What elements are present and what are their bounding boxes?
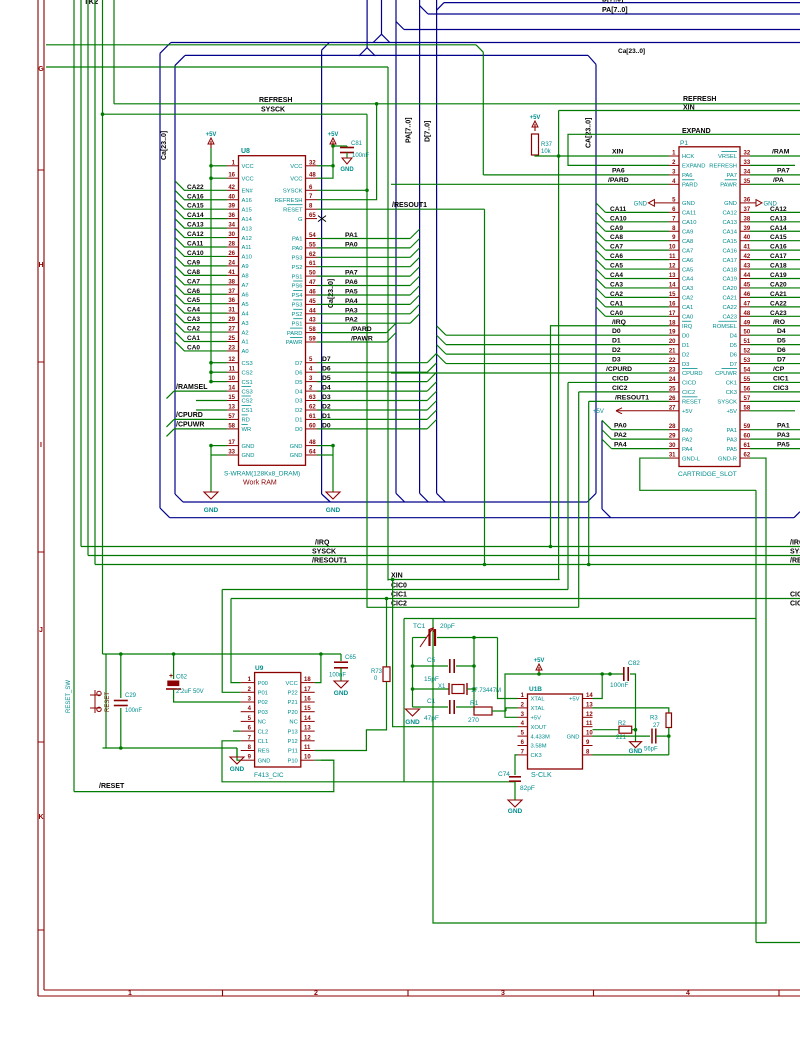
svg-text:S-WRAM(128Kx8_DRAM): S-WRAM(128Kx8_DRAM) [224, 471, 300, 478]
svg-text:34: 34 [744, 169, 751, 175]
resistor R37 10k [532, 134, 539, 155]
svg-text:CA8: CA8 [682, 239, 693, 245]
svg-text:PA1: PA1 [777, 423, 790, 430]
P1 pin 50 D4 [740, 334, 750, 336]
svg-text:CA12: CA12 [722, 211, 737, 217]
wire CA7 bus entry cart [596, 241, 605, 250]
svg-text:54: 54 [744, 368, 751, 374]
U9 pin 5 NC [241, 720, 255, 722]
svg-text:CK3: CK3 [531, 753, 542, 759]
svg-text:CA2: CA2 [610, 291, 623, 298]
svg-text:VCC: VCC [286, 681, 298, 687]
svg-text:/IRQ: /IRQ [612, 319, 626, 326]
ground symbol crystal [406, 709, 420, 716]
svg-text:CA13: CA13 [722, 220, 737, 226]
ground symbol U8 right [326, 492, 340, 499]
P1 pin 59 PA1 [740, 429, 750, 431]
wire TC1 left rail [412, 638, 414, 708]
P1 pin 47 CA22 [740, 306, 750, 308]
wire pin11 to R2 [593, 729, 620, 731]
wire REFRESH vertical from top [113, 0, 115, 104]
P1 pin 39 CA14 [740, 230, 750, 232]
wire /ROMSEL right [750, 325, 800, 327]
resistor R73 [386, 599, 388, 667]
svg-text:27: 27 [228, 327, 235, 333]
svg-text:GND: GND [326, 507, 341, 514]
wire R1 to XTAL2 [492, 710, 506, 712]
U8 pin 29 CA3 [227, 322, 239, 324]
P1 pin 36 GND right arrow [740, 202, 750, 204]
U8 pin 65 G no-connect [306, 218, 318, 220]
svg-text:+5V: +5V [206, 132, 217, 138]
wire +5V vertical from top [102, 0, 104, 654]
svg-text:16: 16 [669, 301, 676, 307]
svg-text:CIC2: CIC2 [391, 600, 407, 607]
svg-text:D1: D1 [612, 338, 621, 345]
svg-text:PS1: PS1 [292, 274, 303, 280]
svg-text:2.2uF 50V: 2.2uF 50V [176, 689, 204, 695]
svg-text:48: 48 [309, 440, 316, 446]
U9 pin 15 P20 [301, 711, 315, 713]
P1 pin 11 CA6 [669, 259, 679, 261]
svg-text:A3: A3 [242, 321, 249, 327]
U1B pin 11 nc [583, 726, 593, 728]
svg-text:/RESOUT1: /RESOUT1 [392, 202, 427, 209]
svg-text:XTAL: XTAL [531, 697, 546, 703]
svg-text:+5V: +5V [593, 409, 604, 415]
svg-text:GND: GND [405, 719, 420, 726]
svg-text:32: 32 [744, 151, 751, 157]
svg-text:VCC: VCC [290, 176, 302, 182]
capacitor C5 15pF [413, 665, 449, 667]
U8 pin 36 CA14 [227, 218, 239, 220]
wire CA10 bus entry [175, 247, 227, 256]
svg-text:CL2: CL2 [258, 729, 269, 735]
wire CA7 bus entry [175, 275, 227, 284]
svg-text:A16: A16 [242, 198, 252, 204]
P1 pin 15 CA2 [669, 296, 679, 298]
svg-text:100nF: 100nF [329, 673, 346, 679]
svg-text:IRQ: IRQ [682, 324, 693, 330]
svg-text:CIC1: CIC1 [790, 592, 800, 599]
P1 pin 31 GND-L [669, 457, 679, 459]
svg-text:CA14: CA14 [722, 229, 737, 235]
svg-text:+5V: +5V [569, 697, 580, 703]
wire PA0 to PA bus [317, 247, 410, 249]
svg-text:CA23: CA23 [722, 315, 737, 321]
wire CIC1 to P00 [231, 599, 241, 683]
svg-text:/RAM: /RAM [772, 149, 790, 156]
svg-text:D2: D2 [682, 352, 689, 358]
wire /RESOUT1 to cart [589, 400, 669, 402]
U8 pin 39 CA15 [227, 208, 239, 210]
U8 pin 63 D3 [306, 400, 318, 402]
svg-text:CA3: CA3 [187, 316, 200, 323]
svg-text:CA12: CA12 [187, 231, 204, 238]
wire CA12 bus entry [175, 228, 227, 237]
svg-text:Ca[23..0]: Ca[23..0] [161, 131, 168, 160]
svg-text:D7: D7 [295, 361, 302, 367]
svg-text:PA0: PA0 [292, 246, 303, 252]
svg-text:62: 62 [744, 453, 751, 459]
+5V power symbol clock [538, 667, 540, 674]
svg-text:GND: GND [204, 507, 219, 514]
wire D3 to D bus [317, 400, 427, 402]
wire CA9 bus entry [175, 257, 227, 266]
svg-text:39: 39 [744, 226, 751, 232]
svg-text:57: 57 [228, 414, 235, 420]
P1 pin 48 CA23 [740, 315, 750, 317]
wire PS1 to PA bus [317, 275, 410, 277]
U8 pin 61 PS2 [306, 266, 318, 268]
svg-text:22: 22 [669, 358, 676, 364]
P1 pin 5 GND left arrow [669, 202, 679, 204]
P1 pin 21 D2 [669, 353, 679, 355]
P1 pin 10 CA7 [669, 249, 679, 251]
U8 pin 10 CS1 [227, 381, 239, 383]
U8 pin 54 PA1 [306, 238, 318, 240]
P1 pin 34 PA7 [740, 174, 750, 176]
U8 pin 62 PS3 [306, 256, 318, 258]
svg-text:GND: GND [629, 748, 643, 755]
capacitor C73 56pF [652, 729, 656, 744]
svg-text:12: 12 [304, 735, 311, 741]
wire /RESOUT1 vertical x484 [484, 209, 486, 564]
P1 pin 27 +5V [669, 410, 679, 412]
svg-text:59: 59 [309, 337, 316, 343]
wire XIN vertical x558 [558, 111, 560, 580]
wire RESET to /RESOUT1 [317, 208, 485, 210]
svg-text:J: J [39, 627, 43, 634]
wire /RAMSEL right [750, 155, 800, 157]
svg-text:14: 14 [228, 386, 235, 392]
wire U8 GND left [211, 445, 227, 447]
U1B pin 10 GND [583, 735, 593, 737]
bus vertical left outer CA [159, 53, 161, 508]
P1 pin 44 CA19 [740, 278, 750, 280]
wire REFRESH horizontal top [114, 103, 800, 105]
svg-text:PA5: PA5 [777, 442, 790, 449]
wire CS1bar stub [196, 409, 227, 411]
wire CIC GND pin9 [237, 748, 241, 760]
svg-text:CA7: CA7 [610, 244, 623, 251]
svg-text:61: 61 [744, 443, 751, 449]
svg-text:CS3: CS3 [242, 361, 253, 367]
svg-text:D[7..0]: D[7..0] [425, 121, 432, 142]
wire GND loop right edge [756, 942, 800, 944]
P1 pin 52 D6 [740, 353, 750, 355]
svg-text:49: 49 [744, 320, 751, 326]
svg-text:18: 18 [304, 677, 311, 683]
svg-text:A0: A0 [242, 349, 249, 355]
wire CA5 bus entry cart [596, 260, 605, 269]
svg-text:34: 34 [228, 223, 235, 229]
svg-text:47pF: 47pF [424, 715, 439, 722]
U8 pin 55 PA0 [306, 247, 318, 249]
wire PA5 right [750, 448, 800, 450]
svg-text:CICD: CICD [612, 375, 629, 382]
wire CA4 bus entry [175, 304, 227, 313]
svg-text:/CPURD: /CPURD [176, 412, 203, 419]
U8 pin 5 D7 [306, 362, 318, 364]
U8 pin 36 CA5 [227, 303, 239, 305]
P1 pin 40 CA15 [740, 240, 750, 242]
svg-text:GND: GND [334, 690, 349, 697]
wire CL1 to clock line [222, 741, 515, 782]
U8 pin 58 WR [227, 428, 239, 430]
wire /CPURD [174, 418, 227, 420]
svg-text:25: 25 [228, 336, 235, 342]
U1B pin 1 XTAL [518, 698, 528, 700]
U8 pin 13 CS1 [227, 409, 239, 411]
svg-text:/IRQ: /IRQ [790, 540, 800, 547]
wire CICD to cart [568, 381, 669, 383]
P1 pin 29 PA2 [669, 438, 679, 440]
svg-text:PA4: PA4 [682, 447, 693, 453]
P1 pin 14 CA3 [669, 287, 679, 289]
wire CA8 bus entry cart [596, 231, 605, 240]
svg-text:A6: A6 [242, 292, 249, 298]
svg-text:P03: P03 [258, 710, 268, 716]
wire CA21 right [750, 296, 800, 298]
svg-text:C65: C65 [345, 655, 357, 661]
svg-text:H: H [38, 262, 43, 269]
wire CA11 bus entry [175, 238, 227, 247]
capacitor C65 100nF [340, 654, 342, 661]
wire D7 right [750, 363, 800, 365]
U9 pin 4 P03 [241, 711, 255, 713]
svg-text:270: 270 [468, 717, 479, 724]
svg-text:GND: GND [634, 202, 648, 208]
svg-text:CK3: CK3 [726, 390, 737, 396]
svg-text:48: 48 [309, 173, 316, 179]
svg-text:PARD: PARD [682, 183, 698, 189]
ground symbol C74 [508, 800, 522, 807]
U9 pin 18 VCC [301, 682, 315, 684]
wire CA6 bus entry [175, 285, 227, 294]
P1 pin 53 D7 [740, 363, 750, 365]
bus vertical CA right x596 [595, 64, 597, 493]
svg-text:RESET: RESET [283, 207, 303, 213]
svg-text:CPUWR: CPUWR [715, 371, 737, 377]
U8 GND pins right [306, 445, 318, 447]
svg-text:24: 24 [669, 377, 676, 383]
svg-text:CA7: CA7 [682, 248, 693, 254]
svg-text:D[7..0]: D[7..0] [602, 0, 623, 4]
wire fence top clock [404, 618, 756, 620]
wire pin8 link [593, 754, 669, 756]
svg-text:37: 37 [744, 207, 751, 213]
U1B pin 6 3.58M [518, 745, 528, 747]
P1 pin 62 GND-R [740, 457, 750, 459]
wire C74 to GND [514, 782, 516, 801]
svg-text:60: 60 [744, 434, 751, 440]
U8 pin 11 CS2 [227, 371, 239, 373]
wire top horizontal to PA6 vert [46, 44, 476, 46]
svg-text:CA19: CA19 [722, 277, 737, 283]
svg-text:SYSCK: SYSCK [717, 400, 737, 406]
svg-text:GND-L: GND-L [682, 456, 701, 462]
+5V power symbol R37 [534, 124, 536, 131]
svg-text:CA6: CA6 [610, 253, 623, 260]
svg-text:CA0: CA0 [682, 315, 693, 321]
svg-text:RESET_SW: RESET_SW [66, 680, 72, 713]
wire vertical XIN x388 [387, 67, 389, 581]
svg-text:CA19: CA19 [770, 272, 787, 279]
svg-text:CA20: CA20 [770, 281, 787, 288]
U9 pin 7 CL1 [241, 740, 255, 742]
svg-text:58: 58 [744, 405, 751, 411]
svg-text:HCK: HCK [682, 154, 694, 160]
svg-text:33: 33 [228, 450, 235, 456]
U8 VCC pins left [227, 165, 239, 167]
svg-text:58: 58 [309, 327, 316, 333]
svg-text:61: 61 [309, 261, 316, 267]
svg-text:U1B: U1B [529, 686, 542, 693]
svg-text:PA0: PA0 [345, 241, 358, 248]
svg-text:P00: P00 [258, 681, 268, 687]
svg-text:CA0: CA0 [610, 310, 623, 317]
svg-text:P21: P21 [287, 700, 297, 706]
svg-text:D4: D4 [295, 389, 303, 395]
svg-text:CA21: CA21 [722, 296, 737, 302]
U8 pin 40 CA16 [227, 199, 239, 201]
U8 pin 26 CA10 [227, 255, 239, 257]
svg-text:CS2: CS2 [242, 370, 253, 376]
wire D0 to D bus [317, 428, 427, 430]
svg-text:/RESET: /RESET [99, 783, 125, 790]
svg-text:CA8: CA8 [610, 234, 623, 241]
wire pin13 to R3 [593, 708, 669, 713]
U8 pin 61 D1 [306, 418, 318, 420]
svg-text:A10: A10 [242, 255, 252, 261]
U8 VCC pins right [306, 165, 318, 167]
U8 pin 12 CS3 [227, 362, 239, 364]
U8 pin 31 CA4 [227, 312, 239, 314]
svg-text:31: 31 [669, 453, 676, 459]
wire D4 to D bus [317, 390, 427, 392]
svg-text:RESET: RESET [682, 400, 702, 406]
svg-text:63: 63 [309, 395, 316, 401]
svg-text:CA6: CA6 [682, 258, 693, 264]
svg-text:XOUT: XOUT [531, 725, 548, 731]
P1 pin 33 REFRESH [740, 164, 750, 166]
svg-text:P22: P22 [287, 691, 297, 697]
svg-text:17: 17 [228, 440, 235, 446]
P1 pin 54 CPUWR [740, 372, 750, 374]
wire PARD to bus395 [317, 332, 387, 334]
svg-text:CA11: CA11 [682, 211, 696, 217]
wire D4 right [750, 334, 800, 336]
svg-text:16: 16 [304, 697, 311, 703]
svg-text:D0: D0 [682, 333, 689, 339]
wire PA3 right [750, 438, 800, 440]
P1 pin 42 CA17 [740, 259, 750, 261]
svg-text:CS3: CS3 [242, 389, 253, 395]
wire CA5 bus entry [175, 294, 227, 303]
svg-text:VCC: VCC [242, 176, 254, 182]
wire CIC2 vertical [578, 392, 580, 607]
wire CIC3 right [750, 391, 800, 393]
svg-text:15pF: 15pF [424, 676, 439, 683]
P1 pin 19 D0 [669, 334, 679, 336]
svg-text:12: 12 [669, 264, 676, 270]
svg-text:PS3: PS3 [292, 256, 303, 262]
svg-text:+5V: +5V [534, 658, 545, 664]
svg-text:/IRQ: /IRQ [315, 540, 330, 547]
svg-text:NC: NC [258, 720, 266, 726]
svg-text:PA3: PA3 [726, 437, 737, 443]
svg-text:36: 36 [228, 213, 235, 219]
svg-text:43: 43 [309, 318, 316, 324]
svg-text:VCC: VCC [290, 164, 302, 170]
wire CA18 right [750, 268, 800, 270]
wire REFRESH right cart [750, 164, 795, 166]
svg-text:CA4: CA4 [682, 277, 694, 283]
U8 pin 58 PARD [306, 332, 318, 334]
svg-text:C62: C62 [176, 675, 188, 681]
P1 pin 3 PA6 [669, 174, 679, 176]
svg-text:CA10: CA10 [682, 220, 697, 226]
wire CA22 bus entry [175, 181, 227, 190]
U9 pin 11 P11 [301, 750, 315, 752]
svg-text:CA11: CA11 [187, 241, 204, 248]
wire CA16 bus entry [175, 190, 227, 199]
U9 pin 17 P22 [301, 691, 315, 693]
svg-text:12: 12 [586, 712, 593, 718]
svg-text:P12: P12 [287, 739, 297, 745]
svg-text:27: 27 [653, 723, 660, 729]
wire +5V to pin3 [505, 674, 539, 717]
svg-text:CA2: CA2 [682, 296, 693, 302]
U8 pin 45 PS3 [306, 303, 318, 305]
svg-text:65: 65 [309, 213, 316, 219]
wire PA1 right [750, 429, 800, 431]
svg-text:PA0: PA0 [682, 428, 693, 434]
wire CA0 bus entry cart [596, 307, 605, 316]
svg-text:36: 36 [744, 197, 751, 203]
svg-text:CIC3: CIC3 [773, 385, 789, 392]
svg-text:ROMSEL: ROMSEL [713, 324, 738, 330]
svg-text:D2: D2 [295, 408, 302, 414]
svg-text:CA2: CA2 [187, 326, 200, 333]
capacitor C29 100nF [120, 654, 122, 698]
U8 pin 3 D5 [306, 381, 318, 383]
svg-text:K: K [38, 814, 43, 821]
capacitor C82 100nF [623, 667, 625, 681]
wire GND-R loop [433, 458, 766, 923]
wire CIC0 to P01 [222, 590, 241, 693]
wire CA19 right [750, 278, 800, 280]
U8 pin 46 PS4 [306, 294, 318, 296]
svg-text:33: 33 [744, 160, 751, 166]
svg-text:10: 10 [228, 376, 235, 382]
svg-text:17: 17 [669, 311, 676, 317]
junction REFRESH [375, 102, 379, 106]
svg-text:CA15: CA15 [187, 203, 204, 210]
svg-text:D5: D5 [295, 380, 302, 386]
svg-text:EXPAND: EXPAND [682, 128, 711, 135]
svg-text:R1: R1 [470, 700, 479, 707]
wire pin10 through C73 [593, 735, 651, 737]
svg-text:CA23: CA23 [770, 310, 787, 317]
wire PS3 to PA bus [317, 303, 410, 305]
ground symbol clock GND [630, 742, 642, 748]
svg-text:59: 59 [744, 424, 751, 430]
wire D6 right [750, 353, 800, 355]
capacitor C74 82pF [509, 776, 521, 778]
wire CA11 bus entry cart [596, 203, 605, 212]
